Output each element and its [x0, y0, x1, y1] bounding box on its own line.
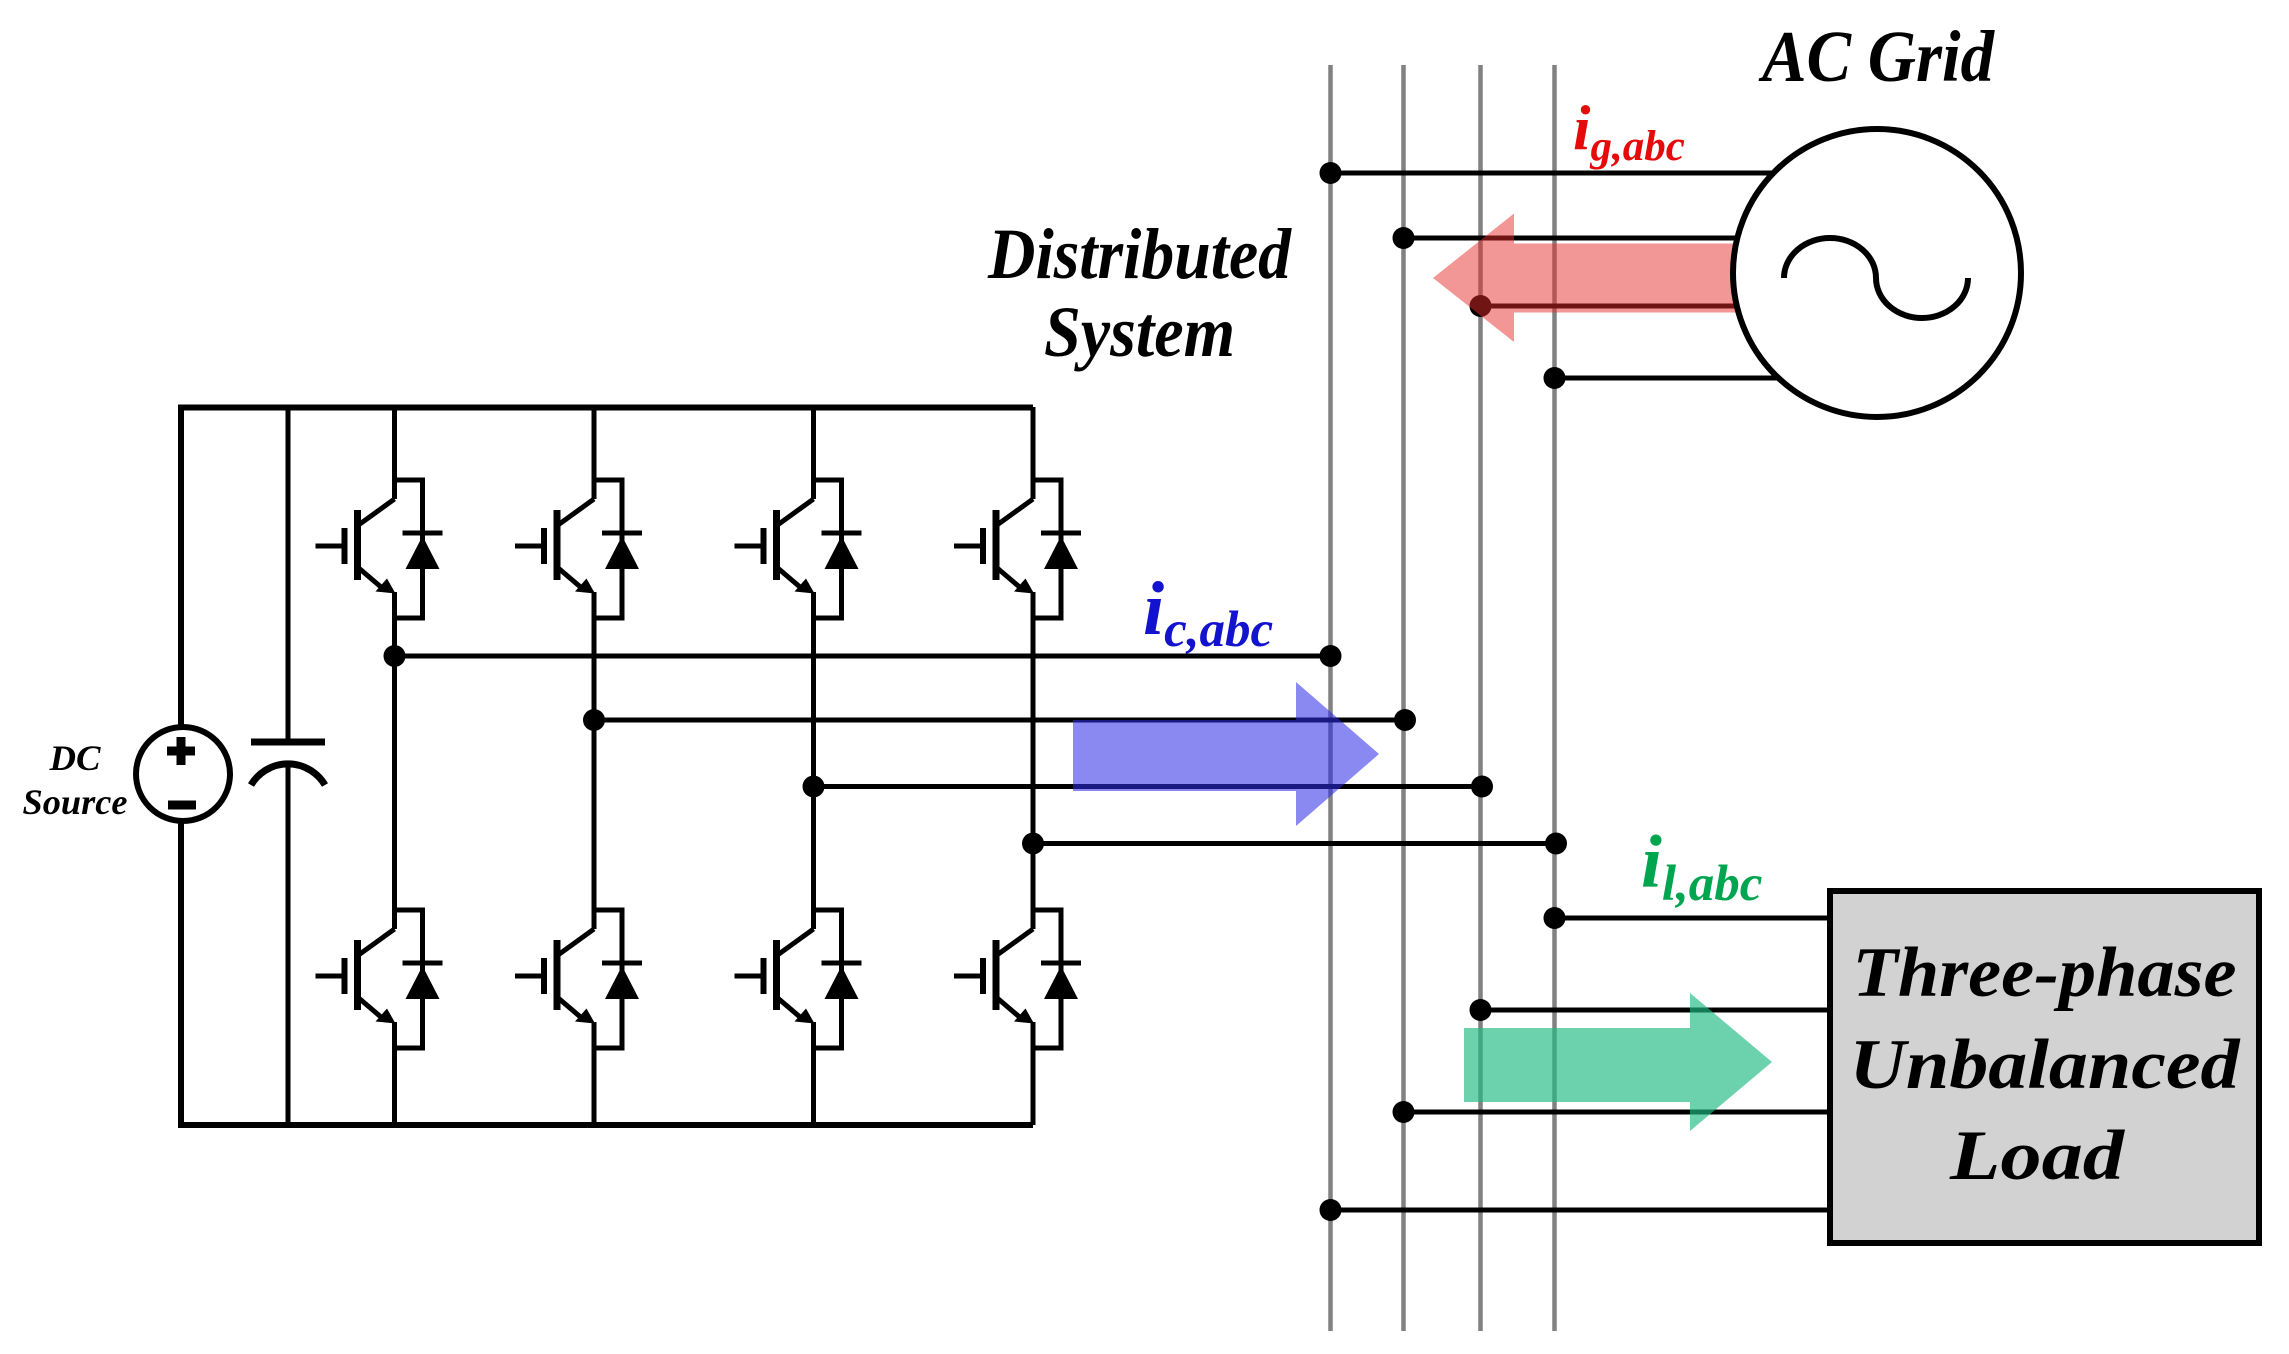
node: leg 2 output [583, 709, 605, 731]
wire: leg 4 middle [1031, 592, 1036, 929]
wire: grid neutral [1555, 376, 1796, 381]
bus line 2 (distributed system phase b) [1401, 65, 1406, 1331]
wire: grid phase a [1331, 171, 1796, 176]
svg-text:Load: Load [1949, 1117, 2126, 1195]
wire: leg 3 upper [811, 407, 816, 499]
wire: DC positive rail (left riser + top rail) [181, 408, 1033, 727]
node: load neutral on bus 1 [1320, 1199, 1342, 1221]
node: neutral on bus 4 [1545, 833, 1567, 855]
bus line 1 (distributed system phase a) [1328, 65, 1333, 1331]
wire: leg 1 upper [392, 407, 397, 499]
wire: leg 4 lower [1031, 1022, 1036, 1125]
wire: leg 3 lower [811, 1022, 816, 1125]
arrow: load current i_l,abc (green, rightward) [1464, 993, 1772, 1131]
svg-text:Unbalanced: Unbalanced [1850, 1026, 2242, 1104]
IGBT S2 with freewheeling diode D2 (leg 2 top) [515, 480, 642, 618]
wire: load phase c [1404, 1110, 1841, 1115]
node: leg 3 output [803, 776, 825, 798]
node: phase c on bus 3 [1471, 776, 1493, 798]
IGBT S5 with freewheeling diode D5 (leg 1 bottom) [316, 910, 443, 1048]
wire: inverter output phase c [814, 784, 1481, 789]
node: leg 1 output [384, 645, 406, 667]
bus line 4 (distributed system neutral) [1552, 65, 1557, 1331]
node: grid phase a on bus 1 [1320, 162, 1342, 184]
AC grid source G1 [1733, 129, 2021, 417]
IGBT S1 with freewheeling diode D1 (leg 1 top) [316, 480, 443, 618]
arrow: converter current i_c,abc (blue, rightward) [1073, 682, 1379, 826]
svg-text:AC Grid: AC Grid [1758, 16, 1995, 97]
svg-text:System: System [1044, 292, 1235, 372]
wire: leg 2 middle [592, 592, 597, 929]
node: grid phase b on bus 2 [1393, 227, 1415, 249]
wire: leg 2 upper [592, 407, 597, 499]
wire: leg 4 upper [1031, 407, 1036, 499]
wire: load phase b [1481, 1008, 1841, 1013]
wire: leg 3 middle [811, 592, 816, 929]
node: load phase c on bus 2 [1393, 1101, 1415, 1123]
node: phase a on bus 1 [1320, 645, 1342, 667]
IGBT S6 with freewheeling diode D6 (leg 2 bottom) [515, 910, 642, 1048]
label: Distributed System [987, 214, 1292, 372]
wire: leg 1 middle [392, 592, 397, 929]
svg-text:Source: Source [23, 782, 128, 822]
wire: inverter output phase b [594, 718, 1404, 723]
node: grid phase c on bus 3 [1470, 295, 1492, 317]
node: phase b on bus 2 [1394, 709, 1416, 731]
capacitor C1 (DC-link) [251, 407, 325, 1125]
node: grid neutral on bus 4 [1544, 367, 1566, 389]
bus line 3 (distributed system phase c) [1478, 65, 1483, 1331]
wire: inverter output phase a [395, 654, 1331, 659]
svg-text:DC: DC [48, 738, 101, 778]
IGBT S8 with freewheeling diode D8 (leg 4 bottom) [954, 910, 1081, 1048]
label: DC Source [23, 738, 128, 822]
wire: load phase a [1555, 916, 1841, 921]
wire: grid phase b [1404, 236, 1751, 241]
IGBT S7 with freewheeling diode D7 (leg 3 bottom) [735, 910, 862, 1048]
IGBT S4 with freewheeling diode D4 (leg 4 top) [954, 480, 1081, 618]
wire: grid phase c [1481, 304, 1751, 309]
arrow: grid current i_g,abc (red, leftward) [1433, 214, 1736, 343]
IGBT S3 with freewheeling diode D3 (leg 3 top) [735, 480, 862, 618]
wire: DC negative rail (left riser + bottom rail) [181, 822, 1033, 1125]
wire: load neutral [1331, 1208, 1841, 1213]
DC source V1 [136, 727, 230, 821]
wire: leg 2 lower [592, 1022, 597, 1125]
load block: three-phase unbalanced load [1830, 891, 2259, 1243]
node: leg 4 output [1022, 833, 1044, 855]
wire: leg 1 lower [392, 1022, 397, 1125]
svg-text:Distributed: Distributed [987, 214, 1292, 294]
wire: inverter output neutral [1033, 841, 1555, 846]
node: load phase a on bus 4 [1544, 907, 1566, 929]
node: load phase b on bus 3 [1470, 999, 1492, 1021]
svg-text:Three-phase: Three-phase [1853, 934, 2237, 1012]
